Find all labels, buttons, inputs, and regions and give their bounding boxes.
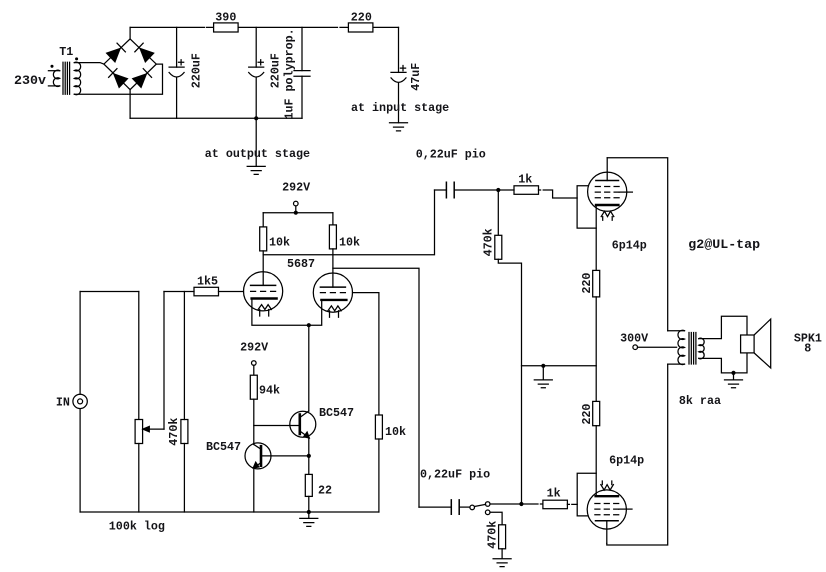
wire bbox=[595, 297, 597, 402]
node bbox=[294, 211, 298, 215]
svg-text:292V: 292V bbox=[240, 341, 268, 355]
wire bottom rail bbox=[80, 511, 379, 513]
resistor 220 (upper cathode) bbox=[593, 270, 600, 297]
node bbox=[307, 454, 311, 458]
svg-text:292V: 292V bbox=[282, 181, 310, 195]
wire bbox=[498, 189, 514, 191]
ground (CCS) bbox=[300, 512, 318, 526]
transistor Q1 BC547 (lower) bbox=[245, 443, 271, 469]
svg-text:10k: 10k bbox=[269, 236, 290, 250]
svg-text:470k: 470k bbox=[167, 418, 181, 446]
svg-text:at output stage: at output stage bbox=[205, 147, 310, 161]
wire bbox=[183, 444, 185, 513]
svg-text:8: 8 bbox=[804, 342, 811, 356]
svg-text:1k5: 1k5 bbox=[197, 275, 218, 289]
svg-text:1k: 1k bbox=[547, 486, 561, 500]
node bbox=[519, 502, 523, 506]
resistor 1k5 bbox=[194, 287, 219, 296]
resistor 22 bbox=[305, 474, 312, 496]
resistor 1k (upper grid stopper) bbox=[514, 186, 539, 195]
svg-text:6p14p: 6p14p bbox=[612, 238, 647, 252]
ground (lower 470k) bbox=[493, 559, 511, 567]
wire bbox=[253, 365, 255, 375]
resistor 10k left bbox=[260, 227, 267, 251]
terminal 292V bbox=[294, 201, 299, 206]
connector IN bbox=[73, 394, 87, 408]
wire bbox=[595, 426, 597, 497]
wire (grid left) bbox=[219, 291, 244, 293]
svg-text:10k: 10k bbox=[339, 236, 360, 250]
wire bbox=[308, 438, 310, 456]
node bbox=[541, 364, 545, 368]
wire (pot wiper net to 1k5) bbox=[164, 291, 194, 293]
svg-text:6p14p: 6p14p bbox=[609, 454, 644, 468]
svg-text:22: 22 bbox=[318, 484, 332, 498]
capacitor 0,22uF pio (upper) bbox=[435, 182, 499, 197]
wire (plate to OPT top) bbox=[607, 158, 668, 331]
ground (mid rail) bbox=[534, 366, 552, 388]
wire bbox=[308, 496, 310, 512]
wire bbox=[138, 292, 140, 420]
connector pin bbox=[485, 510, 490, 515]
wire bbox=[497, 190, 499, 235]
wire top rail bbox=[130, 26, 398, 28]
svg-text:100k log: 100k log bbox=[109, 520, 165, 534]
pot wiper bbox=[143, 292, 164, 432]
resistor 94k bbox=[250, 375, 257, 399]
svg-text:390: 390 bbox=[215, 11, 236, 25]
svg-text:0,22uF pio: 0,22uF pio bbox=[420, 468, 490, 482]
wire bbox=[332, 249, 334, 287]
wire bbox=[490, 512, 502, 525]
node bbox=[496, 188, 500, 192]
wire bbox=[498, 259, 521, 504]
resistor 220 bbox=[348, 23, 373, 32]
svg-text:470k: 470k bbox=[481, 228, 495, 256]
node bbox=[307, 323, 311, 327]
svg-text:230v: 230v bbox=[14, 73, 46, 88]
svg-text:at input stage: at input stage bbox=[351, 101, 449, 115]
wire bbox=[129, 27, 131, 39]
wire bbox=[262, 251, 264, 286]
wire bbox=[253, 468, 255, 513]
wire bbox=[79, 292, 81, 395]
wire bottom rail bbox=[130, 117, 302, 119]
svg-text:47uF: 47uF bbox=[409, 63, 423, 91]
capacitor C1 220uF bbox=[169, 27, 184, 118]
wire bbox=[308, 456, 310, 475]
wire bbox=[459, 506, 470, 508]
connector pin bbox=[470, 505, 475, 510]
diode D4 bbox=[133, 69, 152, 88]
svg-text:220: 220 bbox=[580, 404, 594, 425]
wire (base of Q1) bbox=[261, 455, 309, 457]
wire (left plate to upper coupling cap) bbox=[263, 190, 434, 255]
svg-text:220: 220 bbox=[351, 11, 372, 25]
wire (g1 upper) bbox=[539, 190, 578, 198]
svg-text:470k: 470k bbox=[485, 521, 499, 549]
wire bbox=[80, 291, 139, 293]
resistor 1k (lower grid stopper) bbox=[543, 500, 568, 509]
wire (cathode bus) bbox=[252, 299, 322, 326]
node (rail junction) bbox=[254, 116, 258, 120]
ground (47uF) bbox=[390, 123, 408, 131]
wire bbox=[79, 409, 81, 512]
terminal 292V bbox=[252, 361, 257, 366]
wire bbox=[295, 206, 297, 213]
connector pin bbox=[485, 502, 490, 507]
svg-text:T1: T1 bbox=[59, 45, 73, 59]
resistor 470k (upper) bbox=[495, 235, 502, 259]
svg-text:BC547: BC547 bbox=[206, 440, 241, 454]
wire bbox=[501, 549, 503, 559]
svg-text:8k raa: 8k raa bbox=[679, 394, 721, 408]
transformer OPT core bbox=[689, 333, 696, 365]
capacitor 0,22uF pio (lower) bbox=[451, 500, 459, 514]
pentode V1 6p14p (upper) bbox=[588, 158, 633, 220]
transformer OPT secondary bbox=[699, 316, 747, 373]
transformer OPT primary bbox=[668, 330, 685, 364]
wire bbox=[262, 213, 264, 227]
potentiometer 100k log bbox=[135, 420, 143, 444]
wire bbox=[129, 90, 131, 119]
wire bbox=[263, 212, 333, 214]
wire (right plate to lower coupling cap) bbox=[333, 268, 419, 507]
jumper blade bbox=[474, 504, 485, 506]
svg-text:g2@UL-tap: g2@UL-tap bbox=[688, 237, 760, 252]
speaker SPK1 bbox=[741, 319, 771, 368]
wire bbox=[332, 213, 334, 225]
triode U1a (5687 left) bbox=[244, 272, 283, 316]
svg-text:300V: 300V bbox=[620, 332, 648, 346]
wire (base of Q2) bbox=[254, 425, 300, 427]
wire bbox=[183, 292, 185, 420]
wire bbox=[253, 399, 255, 444]
wire bbox=[521, 503, 543, 505]
svg-text:1uF polyprop.: 1uF polyprop. bbox=[283, 28, 297, 119]
wire bbox=[138, 444, 140, 513]
diode D3 bbox=[109, 69, 128, 88]
svg-text:0,22uF pio: 0,22uF pio bbox=[416, 147, 486, 161]
svg-text:10k: 10k bbox=[385, 425, 406, 439]
resistor 390 bbox=[214, 23, 239, 32]
resistor 10k (grid leak right) bbox=[375, 415, 382, 439]
wire bbox=[308, 325, 310, 411]
wire (g3-cathode strap upper) bbox=[577, 186, 596, 228]
transformer T1 bbox=[48, 58, 80, 95]
triode U1b (5687 right) bbox=[313, 273, 352, 317]
wire (g3-cathode strap lower) bbox=[577, 473, 596, 516]
wire (plate to OPT bottom) bbox=[607, 364, 668, 545]
svg-text:94k: 94k bbox=[259, 384, 280, 398]
svg-text:220uF: 220uF bbox=[189, 53, 203, 88]
wire (g1 lower) bbox=[567, 503, 577, 505]
wire bbox=[255, 118, 257, 166]
wire bbox=[419, 506, 451, 508]
resistor 220 (lower cathode) bbox=[593, 401, 600, 425]
svg-text:1k: 1k bbox=[518, 172, 532, 186]
ground (speaker) bbox=[725, 373, 743, 388]
resistor 470k (lower, to ground) bbox=[499, 525, 506, 549]
resistor 470k (grid leak) bbox=[181, 420, 188, 444]
bridge rectifier diamond bbox=[104, 39, 156, 90]
wire (cathode upper) bbox=[595, 205, 597, 270]
resistor 10k right bbox=[329, 225, 336, 249]
wire (grid right to 10k) bbox=[353, 293, 379, 415]
pentode V2 6p14p (lower) bbox=[587, 481, 632, 543]
svg-text:220: 220 bbox=[580, 273, 594, 294]
svg-text:5687: 5687 bbox=[287, 257, 315, 271]
capacitor C3 1uF polyprop bbox=[294, 27, 310, 118]
wire bbox=[74, 64, 162, 94]
node bbox=[731, 371, 735, 375]
svg-text:BC547: BC547 bbox=[319, 406, 354, 420]
transistor Q2 BC547 (upper) bbox=[290, 411, 316, 438]
wire bbox=[490, 503, 521, 505]
node bbox=[307, 510, 311, 514]
terminal 300V bbox=[633, 345, 638, 350]
wire (center tap) bbox=[638, 346, 677, 348]
wire bbox=[74, 63, 104, 65]
wire (ground rail mid) bbox=[522, 365, 597, 367]
svg-text:220uF: 220uF bbox=[269, 53, 283, 88]
capacitor C4 47uF bbox=[391, 27, 406, 122]
diode D2 bbox=[135, 43, 154, 62]
capacitor C2 220uF bbox=[249, 27, 264, 118]
diode D1 bbox=[107, 43, 126, 62]
svg-text:IN: IN bbox=[56, 395, 70, 409]
ground (output stage) bbox=[247, 166, 265, 174]
wire bbox=[378, 439, 380, 512]
